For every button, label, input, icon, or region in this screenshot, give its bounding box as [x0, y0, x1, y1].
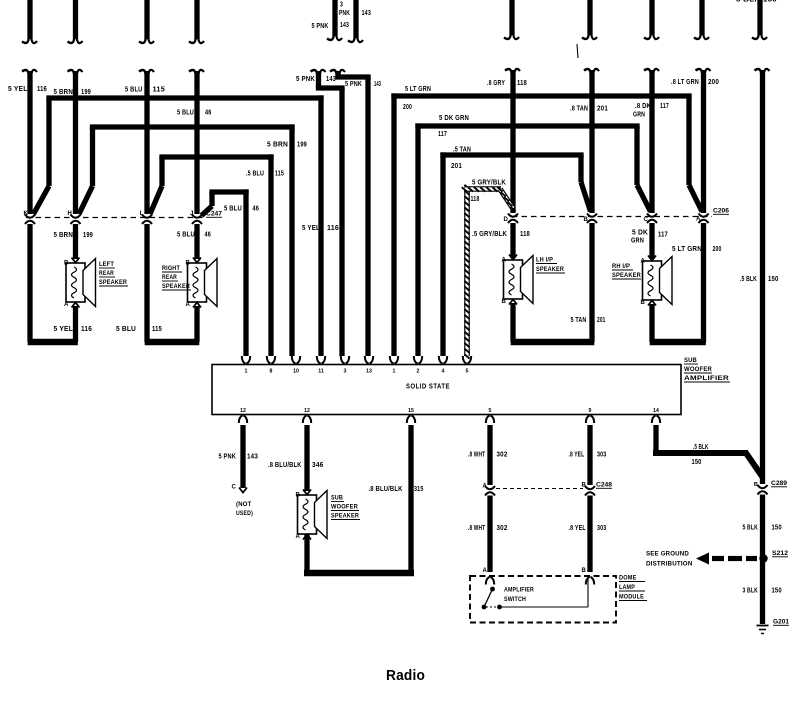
svg-text:A: A: [185, 302, 190, 308]
svg-text:(NOT: (NOT: [236, 501, 252, 508]
svg-text:SOLID STATE: SOLID STATE: [406, 382, 450, 391]
svg-text:199: 199: [81, 89, 91, 96]
svg-text:143: 143: [362, 10, 372, 17]
svg-text:5 YEL: 5 YEL: [54, 326, 74, 333]
svg-text:.5 TAN: .5 TAN: [453, 147, 471, 154]
svg-text:AMPLIFIER: AMPLIFIER: [504, 588, 534, 594]
svg-text:A: A: [501, 258, 506, 264]
svg-text:5 PNK: 5 PNK: [296, 76, 315, 83]
svg-text:B: B: [64, 261, 69, 267]
svg-text:200: 200: [708, 79, 719, 86]
svg-text:S212: S212: [772, 550, 789, 557]
svg-text:199: 199: [83, 232, 93, 239]
svg-text:8: 8: [270, 369, 273, 375]
svg-text:150: 150: [768, 276, 779, 283]
svg-text:J: J: [190, 211, 194, 217]
svg-text:13: 13: [366, 369, 372, 375]
svg-text:LEFT: LEFT: [99, 261, 114, 268]
svg-text:5 BRN: 5 BRN: [54, 89, 74, 96]
svg-text:143: 143: [326, 76, 336, 83]
svg-text:.5 BLU: .5 BLU: [246, 171, 264, 178]
svg-text:B: B: [640, 300, 645, 306]
svg-text:B: B: [185, 261, 190, 267]
svg-text:B: B: [295, 493, 300, 499]
svg-text:5 BRN: 5 BRN: [54, 232, 74, 239]
svg-text:115: 115: [153, 87, 166, 94]
svg-text:201: 201: [597, 106, 608, 113]
svg-text:117: 117: [438, 131, 447, 138]
svg-text:302: 302: [497, 452, 508, 459]
svg-text:SPEAKER: SPEAKER: [162, 283, 190, 290]
svg-text:14: 14: [653, 408, 659, 414]
svg-text:.8 DK: .8 DK: [635, 103, 651, 110]
svg-text:REAR: REAR: [99, 270, 114, 277]
svg-text:SPEAKER: SPEAKER: [331, 513, 359, 520]
svg-text:SEE GROUND: SEE GROUND: [646, 551, 689, 558]
svg-text:.8 BLU/BLK: .8 BLU/BLK: [369, 486, 403, 493]
svg-text:5 BLU: 5 BLU: [224, 206, 242, 213]
svg-text:5 BLU: 5 BLU: [116, 326, 136, 333]
svg-text:PNK: PNK: [339, 10, 350, 17]
svg-text:A: A: [640, 259, 645, 265]
svg-text:REAR: REAR: [162, 274, 177, 281]
svg-text:.8 YEL: .8 YEL: [569, 525, 587, 532]
svg-text:.5 BLK: .5 BLK: [740, 276, 757, 283]
svg-text:143: 143: [247, 454, 258, 461]
svg-text:303: 303: [597, 525, 606, 532]
svg-text:K: K: [23, 211, 28, 217]
svg-text:5 PNK: 5 PNK: [219, 454, 237, 461]
svg-text:.8 WHT: .8 WHT: [468, 525, 486, 532]
svg-text:200: 200: [403, 104, 412, 111]
svg-text:11: 11: [318, 369, 324, 375]
svg-text:46: 46: [205, 232, 212, 239]
svg-text:4: 4: [442, 369, 445, 375]
svg-text:LH I/P: LH I/P: [536, 257, 553, 264]
svg-text:GRN: GRN: [633, 112, 645, 119]
svg-text:C206: C206: [713, 208, 730, 215]
svg-text:150: 150: [772, 588, 782, 595]
svg-text:Radio: Radio: [386, 668, 425, 684]
svg-text:116: 116: [81, 326, 92, 333]
svg-text:5 BLU: 5 BLU: [177, 110, 194, 117]
svg-text:116: 116: [327, 225, 339, 232]
svg-text:.5 GRY/BLK: .5 GRY/BLK: [472, 231, 507, 238]
svg-text:201: 201: [451, 163, 462, 170]
svg-text:B: B: [581, 483, 586, 489]
svg-text:.8 WHT: .8 WHT: [468, 452, 486, 459]
svg-text:SWITCH: SWITCH: [504, 597, 526, 603]
svg-text:LAMP: LAMP: [619, 584, 635, 591]
svg-text:.5 BLK: .5 BLK: [693, 444, 709, 451]
svg-text:.8 TAN: .8 TAN: [570, 106, 588, 113]
svg-text:RIGHT: RIGHT: [162, 265, 180, 272]
svg-text:A: A: [696, 217, 701, 223]
svg-text:SUB: SUB: [331, 495, 343, 502]
svg-text:117: 117: [660, 103, 669, 110]
svg-text:.8 LT GRN: .8 LT GRN: [671, 79, 699, 86]
svg-text:303: 303: [597, 452, 606, 459]
svg-text:.8 BLU/BLK: .8 BLU/BLK: [268, 462, 302, 469]
svg-text:118: 118: [517, 80, 527, 87]
svg-text:12: 12: [304, 408, 310, 414]
svg-text:.8 YEL: .8 YEL: [569, 452, 585, 459]
svg-text:302: 302: [497, 525, 508, 532]
svg-text:5 BRN: 5 BRN: [267, 142, 288, 149]
svg-text:5 PNK: 5 PNK: [312, 23, 329, 30]
svg-text:D: D: [503, 217, 508, 223]
svg-text:RH I/P: RH I/P: [612, 263, 630, 270]
svg-text:L: L: [140, 211, 144, 217]
svg-text:WOOFER: WOOFER: [684, 366, 712, 373]
svg-text:MODULE: MODULE: [619, 594, 644, 601]
svg-text:A: A: [295, 534, 300, 540]
svg-text:118: 118: [520, 231, 530, 238]
svg-text:C248: C248: [596, 482, 613, 489]
svg-text:200: 200: [713, 246, 722, 253]
svg-text:5 BLU: 5 BLU: [177, 232, 195, 239]
svg-text:150: 150: [772, 525, 782, 532]
svg-text:3: 3: [344, 369, 347, 375]
svg-text:5 BLK 150: 5 BLK 150: [736, 0, 777, 4]
svg-text:115: 115: [275, 171, 284, 178]
svg-text:346: 346: [312, 462, 324, 469]
svg-text:199: 199: [297, 142, 307, 149]
svg-text:5 BLU: 5 BLU: [125, 87, 143, 94]
svg-text:9: 9: [589, 408, 592, 414]
svg-text:3 BLK: 3 BLK: [743, 588, 759, 595]
svg-text:SPEAKER: SPEAKER: [99, 279, 127, 286]
svg-text:5 BLK: 5 BLK: [743, 525, 759, 532]
svg-text:5 GRY/BLK: 5 GRY/BLK: [472, 180, 506, 187]
svg-text:150: 150: [692, 459, 702, 466]
svg-text:G201: G201: [773, 619, 790, 626]
svg-text:SUB: SUB: [684, 357, 697, 364]
svg-text:143: 143: [340, 22, 349, 29]
svg-text:B: B: [754, 482, 758, 488]
svg-text:AMPLIFIER: AMPLIFIER: [684, 375, 729, 382]
svg-text:H: H: [67, 211, 72, 217]
svg-text:46: 46: [205, 110, 212, 117]
svg-text:10: 10: [293, 369, 299, 375]
svg-text:C: C: [643, 217, 648, 223]
svg-text:115: 115: [152, 326, 162, 333]
svg-text:1: 1: [245, 369, 248, 375]
svg-text:5: 5: [466, 369, 469, 375]
svg-text:315: 315: [414, 486, 424, 493]
svg-text:A: A: [482, 568, 487, 574]
svg-text:B: B: [583, 217, 588, 223]
svg-text:15: 15: [408, 408, 414, 414]
svg-text:2: 2: [417, 369, 420, 375]
svg-text:143: 143: [374, 81, 381, 88]
svg-text:A: A: [482, 484, 487, 490]
svg-text:GRN: GRN: [631, 238, 644, 245]
svg-text:C: C: [231, 485, 236, 491]
svg-text:C289: C289: [771, 480, 788, 487]
svg-text:5 DK GRN: 5 DK GRN: [439, 115, 469, 122]
svg-text:DOME: DOME: [619, 575, 637, 582]
svg-text:116: 116: [37, 86, 47, 93]
svg-text:5 DK: 5 DK: [632, 230, 648, 237]
svg-text:118: 118: [471, 196, 480, 203]
svg-text:5 LT GRN: 5 LT GRN: [405, 86, 431, 93]
svg-text:1: 1: [393, 369, 396, 375]
svg-text:46: 46: [253, 206, 260, 213]
svg-text:B: B: [581, 568, 586, 574]
svg-text:5 TAN: 5 TAN: [571, 317, 587, 324]
svg-text:A: A: [64, 302, 69, 308]
svg-text:201: 201: [597, 317, 606, 324]
svg-text:12: 12: [240, 408, 246, 414]
svg-text:5 YEL: 5 YEL: [302, 225, 320, 232]
svg-text:5: 5: [489, 408, 492, 414]
svg-text:DISTRIBUTION: DISTRIBUTION: [646, 561, 693, 568]
svg-text:USED): USED): [236, 510, 253, 517]
svg-text:SPEAKER: SPEAKER: [536, 266, 564, 273]
svg-text:5 LT GRN: 5 LT GRN: [672, 246, 702, 253]
svg-text:B: B: [501, 299, 506, 305]
svg-text:5 PNK: 5 PNK: [345, 81, 362, 88]
svg-text:.8 GRY: .8 GRY: [487, 80, 505, 87]
svg-text:117: 117: [658, 232, 668, 239]
svg-text:WOOFER: WOOFER: [331, 504, 358, 511]
svg-text:3: 3: [340, 2, 343, 9]
svg-text:SPEAKER: SPEAKER: [612, 272, 641, 279]
svg-text:5 YEL: 5 YEL: [8, 86, 28, 93]
